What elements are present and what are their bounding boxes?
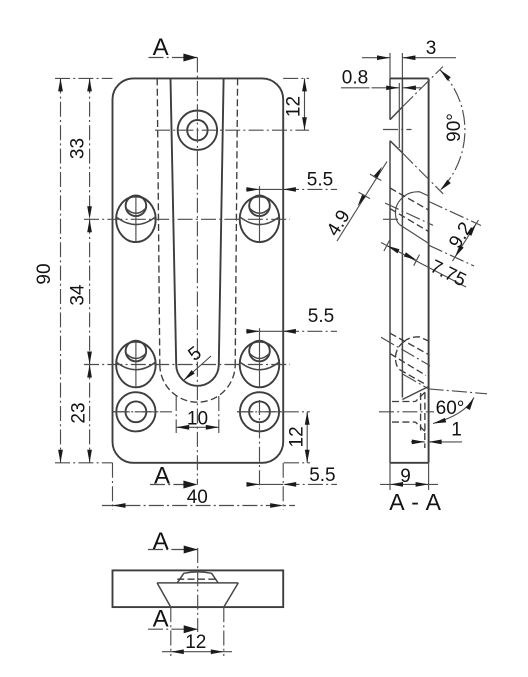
svg-text:34: 34 xyxy=(68,284,89,306)
svg-text:A: A xyxy=(153,34,169,61)
svg-text:A: A xyxy=(154,462,170,489)
svg-text:A - A: A - A xyxy=(389,489,442,515)
svg-text:0.8: 0.8 xyxy=(342,68,368,89)
svg-text:1: 1 xyxy=(451,420,462,441)
svg-text:5.5: 5.5 xyxy=(309,465,335,486)
svg-text:23: 23 xyxy=(69,402,90,423)
svg-text:33: 33 xyxy=(68,138,89,159)
svg-text:40: 40 xyxy=(187,487,208,508)
svg-text:9: 9 xyxy=(400,466,411,487)
svg-text:5.5: 5.5 xyxy=(308,306,334,327)
svg-text:10: 10 xyxy=(187,409,208,430)
svg-text:60°: 60° xyxy=(436,398,465,419)
svg-text:A: A xyxy=(153,528,169,555)
svg-text:A: A xyxy=(153,606,169,633)
svg-text:12: 12 xyxy=(287,426,308,447)
svg-text:90°: 90° xyxy=(444,113,465,142)
svg-text:90: 90 xyxy=(34,263,55,284)
svg-text:12: 12 xyxy=(185,632,206,653)
svg-text:3: 3 xyxy=(426,38,437,59)
svg-text:5.5: 5.5 xyxy=(307,170,333,191)
svg-text:12: 12 xyxy=(284,96,305,117)
